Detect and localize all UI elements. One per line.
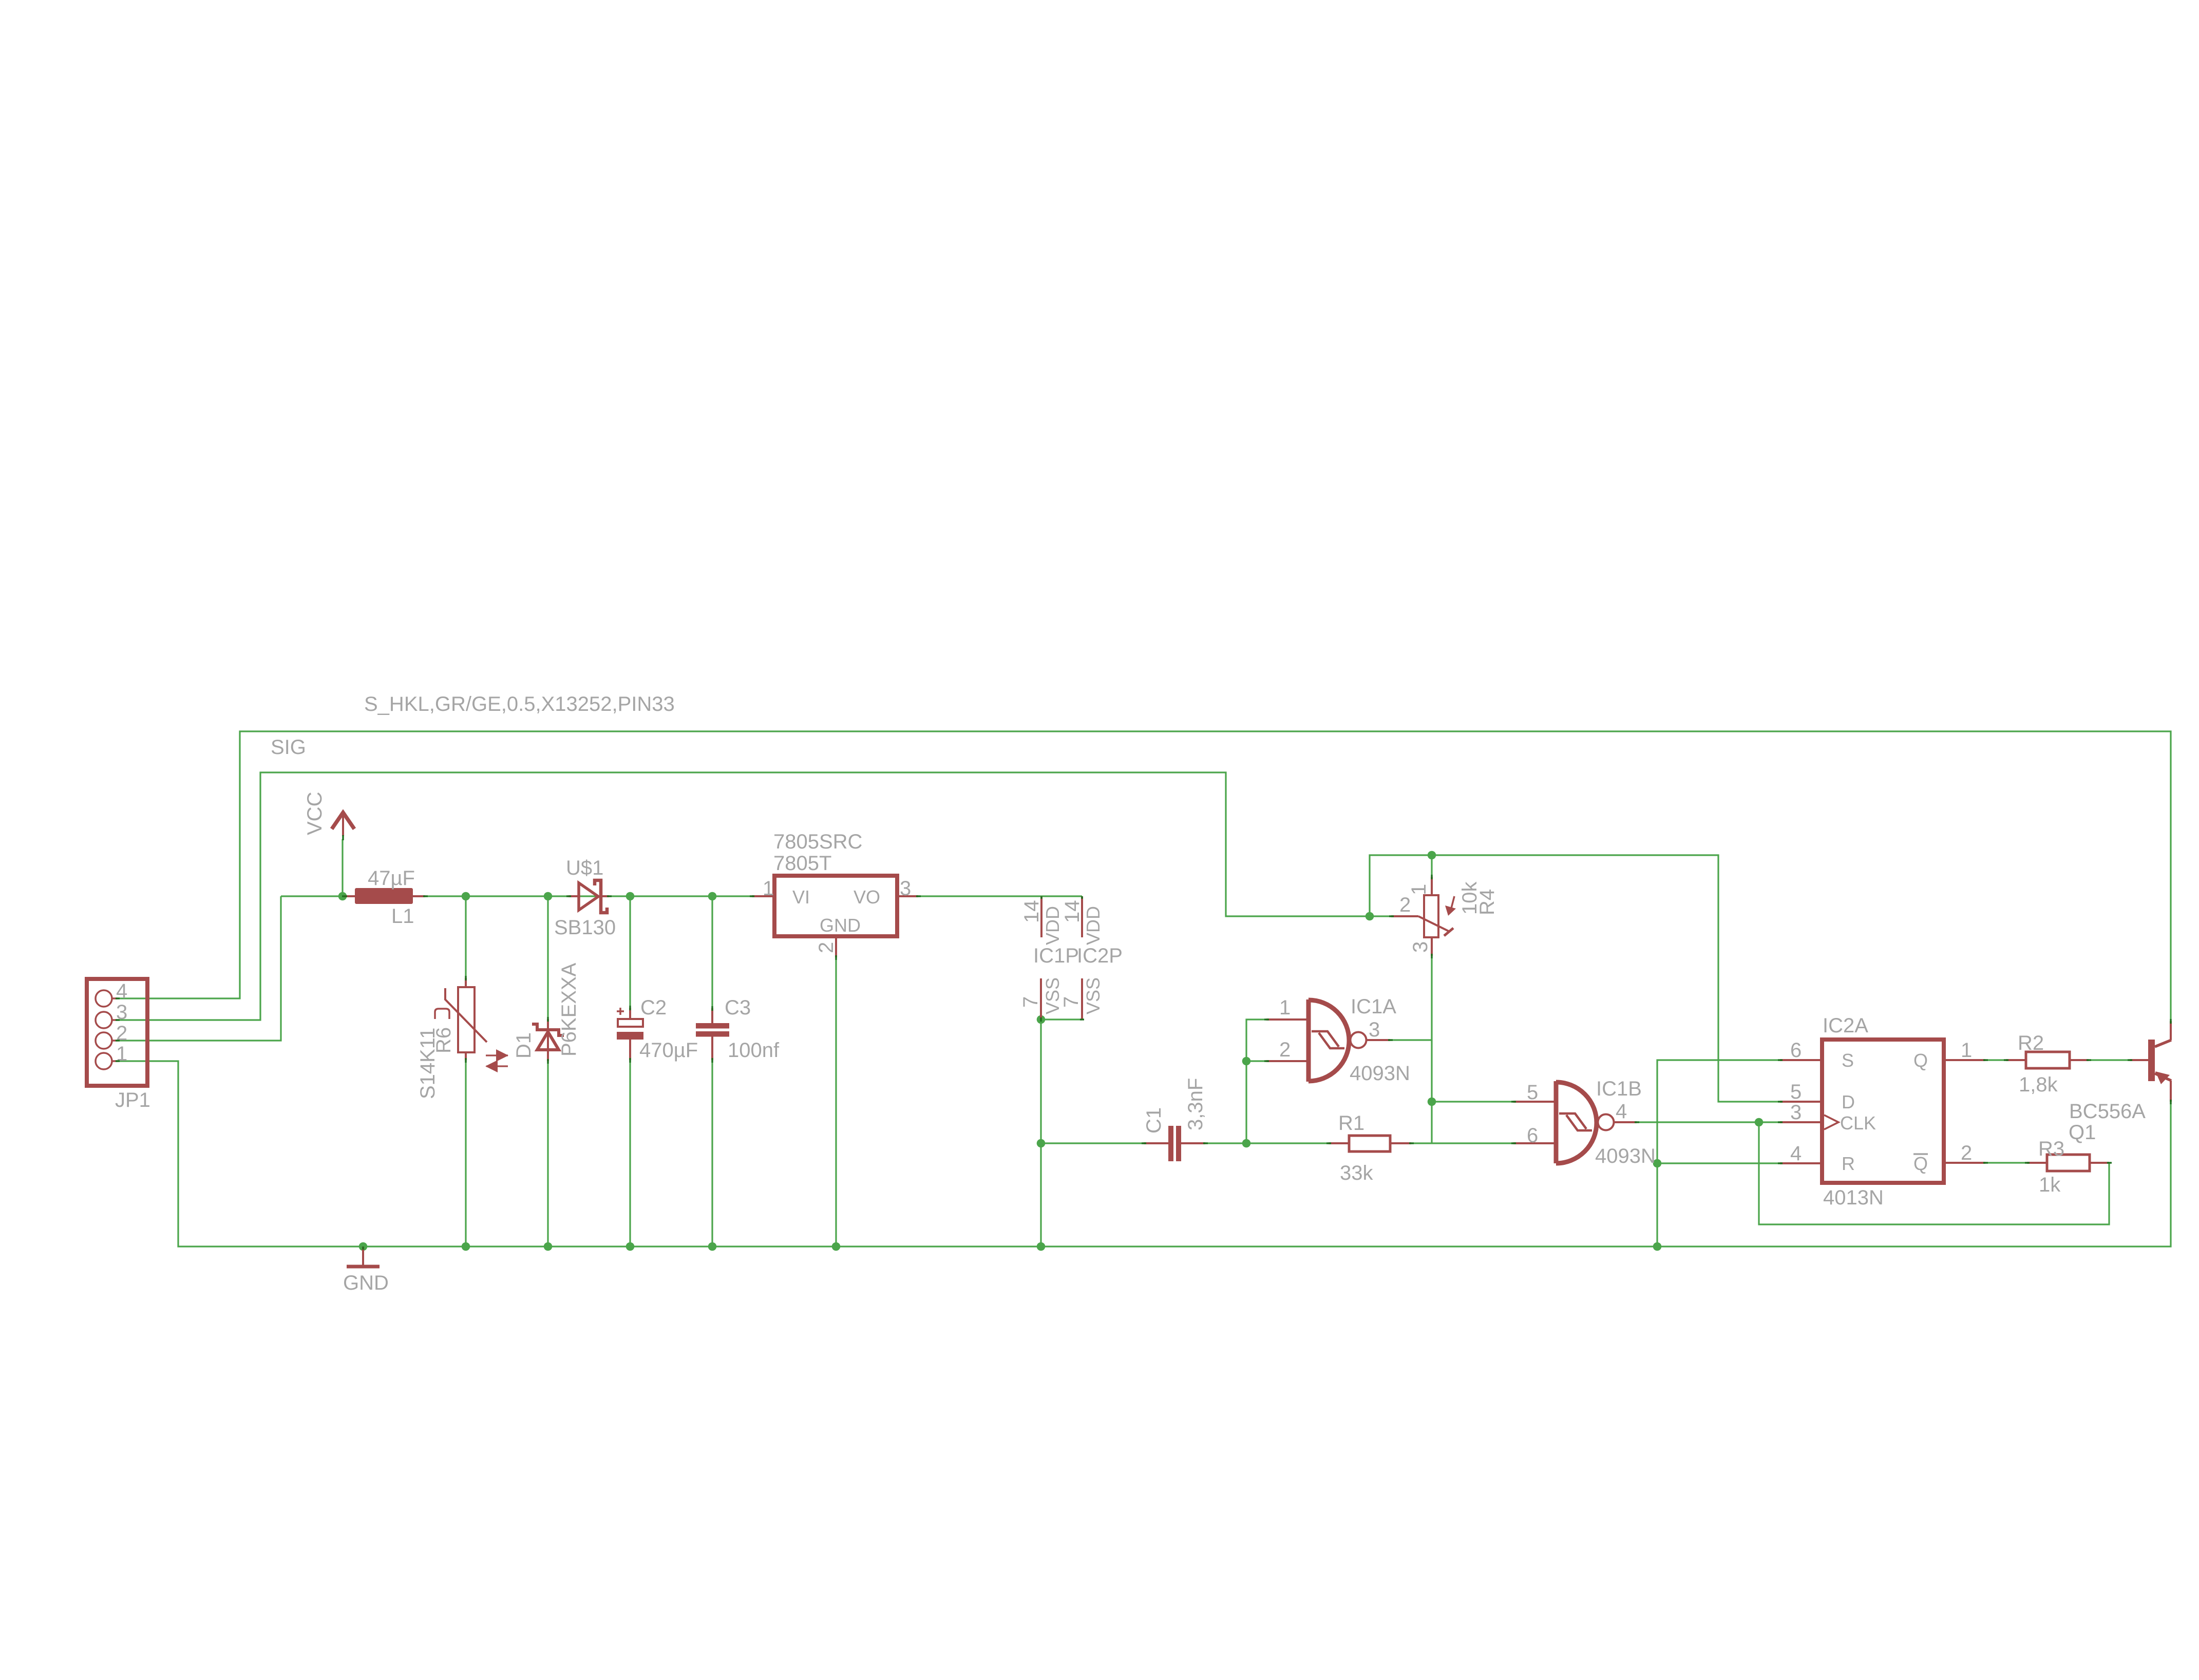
wire R4 out down to IC1B pin5 <box>1431 1040 1432 1143</box>
wire S and R to ground column <box>1657 1060 1780 1247</box>
voltage regulator 7805 <box>752 830 918 957</box>
junction VSS pins <box>1037 1015 1046 1024</box>
wire VSS link <box>1041 1018 1082 1020</box>
svg-text:Q1: Q1 <box>2069 1121 2096 1144</box>
svg-text:C1: C1 <box>1143 1107 1165 1134</box>
wire GND to C1 <box>1041 1142 1144 1144</box>
pin connection ticks <box>116 835 2171 1250</box>
junction 7805 GND bottom <box>832 1242 841 1251</box>
svg-text:R2: R2 <box>2018 1032 2044 1054</box>
svg-text:JP1: JP1 <box>115 1089 150 1111</box>
capacitor C3 <box>696 996 780 1062</box>
svg-text:VO: VO <box>854 886 880 908</box>
svg-text:IC2A: IC2A <box>1823 1014 1868 1037</box>
nand gate IC1B <box>1513 1078 1656 1167</box>
svg-text:D1: D1 <box>513 1032 535 1059</box>
junction D1 top <box>544 892 553 901</box>
junction D1 bottom <box>544 1242 553 1251</box>
junction IC1A pin2 <box>1242 1057 1251 1066</box>
inductor L1 <box>344 867 425 928</box>
svg-text:33k: 33k <box>1340 1162 1373 1184</box>
svg-text:R: R <box>1842 1153 1855 1174</box>
svg-text:7: 7 <box>1019 996 1042 1008</box>
junction R pin gnd <box>1653 1159 1662 1168</box>
svg-text:1,8k: 1,8k <box>2019 1073 2058 1096</box>
capacitor C2 polarized <box>617 996 698 1062</box>
svg-text:5: 5 <box>1790 1081 1802 1103</box>
wire CLK to R3 return loop <box>1759 1122 2109 1224</box>
connector JP1 <box>87 979 150 1111</box>
junction SIG R4 wiper <box>1366 912 1374 921</box>
wire D1 column <box>547 896 548 1019</box>
wire 7805 GND pin column <box>835 957 837 1247</box>
svg-text:2: 2 <box>1961 1142 1972 1164</box>
svg-text:2: 2 <box>1399 894 1411 916</box>
svg-text:1: 1 <box>1279 996 1291 1019</box>
junction C2 top <box>626 892 635 901</box>
svg-text:S_HKL,GR/GE,0.5,X13252,PIN33: S_HKL,GR/GE,0.5,X13252,PIN33 <box>364 693 675 715</box>
svg-text:R1: R1 <box>1338 1112 1364 1135</box>
svg-text:L1: L1 <box>391 905 414 928</box>
svg-text:3: 3 <box>900 877 911 900</box>
wire IC1B pin5 <box>1432 1101 1513 1102</box>
svg-text:IC1B: IC1B <box>1596 1078 1642 1100</box>
svg-text:IC1P: IC1P <box>1033 945 1079 967</box>
wire net S_HKL from JP1 pin4 to Q1 collector <box>118 731 2171 1021</box>
svg-text:SB130: SB130 <box>554 916 616 939</box>
wire IC1A pin2 stub <box>1246 1060 1266 1062</box>
svg-text:C3: C3 <box>725 996 751 1019</box>
junction CLK node <box>1755 1118 1764 1127</box>
svg-text:14: 14 <box>1020 900 1043 923</box>
ground symbol GND <box>343 1247 389 1294</box>
svg-text:6: 6 <box>1527 1124 1538 1147</box>
svg-text:R6: R6 <box>432 1027 455 1053</box>
svg-text:C2: C2 <box>640 996 667 1019</box>
junction R6 bottom <box>462 1242 470 1251</box>
wire IC1B output to CLK <box>1637 1121 1780 1123</box>
svg-text:7: 7 <box>1060 996 1083 1008</box>
wire R2 to Q1 base <box>2089 1059 2130 1061</box>
svg-text:Q: Q <box>1913 1153 1928 1174</box>
junction IC1B pin5 node <box>1428 1098 1436 1106</box>
svg-text:4013N: 4013N <box>1823 1186 1884 1209</box>
svg-text:2: 2 <box>815 942 838 953</box>
svg-text:4: 4 <box>1616 1100 1627 1123</box>
svg-text:4093N: 4093N <box>1595 1145 1656 1167</box>
wire SIG branch to R4 pin1 <box>1431 855 1432 877</box>
wire net VCC from JP1 pin2 to rail <box>118 896 281 1041</box>
svg-text:GND: GND <box>820 915 861 936</box>
svg-text:VDD: VDD <box>1042 906 1063 945</box>
svg-text:4: 4 <box>1790 1142 1802 1165</box>
svg-text:U$1: U$1 <box>566 857 603 879</box>
junction C3 top <box>708 892 717 901</box>
resistor R3 <box>2027 1138 2109 1196</box>
resistor R2 <box>2006 1032 2089 1096</box>
varistor R6 <box>416 978 487 1099</box>
wire VCC symbol stub <box>342 839 343 896</box>
wire IC1A output to R4 pin3 column <box>1390 956 1432 1040</box>
suppressor diode D1 <box>485 962 580 1072</box>
svg-text:6: 6 <box>1790 1039 1802 1062</box>
svg-text:D: D <box>1842 1091 1855 1112</box>
wire SIG branch to D of IC2A <box>1370 855 1780 1102</box>
svg-text:47µF: 47µF <box>368 867 415 890</box>
junction C1 R1 node <box>1242 1139 1251 1148</box>
svg-text:Q: Q <box>1913 1050 1928 1071</box>
flip flop IC2A <box>1780 1014 1985 1209</box>
svg-text:470µF: 470µF <box>639 1039 698 1062</box>
junction VSS bottom rail <box>1037 1242 1046 1251</box>
svg-text:7805SRC: 7805SRC <box>773 830 862 853</box>
junction C2 bottom <box>626 1242 635 1251</box>
junction R6 top <box>462 892 470 901</box>
junction GND symbol <box>359 1242 368 1251</box>
svg-text:IC1A: IC1A <box>1351 995 1396 1018</box>
svg-text:P6KEXXA: P6KEXXA <box>558 962 580 1056</box>
svg-text:4093N: 4093N <box>1350 1062 1410 1085</box>
svg-text:2: 2 <box>1279 1039 1291 1061</box>
svg-text:VSS: VSS <box>1083 977 1104 1014</box>
svg-text:3: 3 <box>1790 1101 1802 1124</box>
svg-text:S: S <box>1842 1050 1854 1071</box>
svg-text:1: 1 <box>1408 884 1430 895</box>
transistor Q1 BC556A <box>2069 1021 2171 1144</box>
svg-text:VI: VI <box>792 886 810 908</box>
svg-text:IC2P: IC2P <box>1077 945 1123 967</box>
trimmer R4 <box>1391 877 1499 956</box>
power symbol VCC <box>304 792 354 836</box>
svg-text:R3: R3 <box>2038 1138 2064 1160</box>
svg-text:VSS: VSS <box>1042 977 1063 1014</box>
wire R1 to IC1B pin6 <box>1411 1142 1513 1144</box>
wire C2 column <box>629 896 631 1008</box>
svg-text:VCC: VCC <box>304 792 326 835</box>
wire C1 to R1 node <box>1205 1142 1329 1144</box>
svg-text:100nf: 100nf <box>728 1039 780 1062</box>
wire C3 column <box>711 896 713 1008</box>
junction C1 gnd branch <box>1037 1139 1046 1148</box>
svg-text:7805T: 7805T <box>773 852 831 875</box>
resistor R1 <box>1329 1112 1411 1184</box>
svg-text:CLK: CLK <box>1840 1112 1876 1134</box>
wire Q to R2 <box>1985 1059 2006 1061</box>
svg-text:R4: R4 <box>1476 889 1499 915</box>
wire 7805 output to VDD pins <box>918 895 1082 897</box>
wire net SIG from JP1 pin3 to R4 pin2 <box>118 772 1391 1020</box>
wire VCC rail <box>281 895 752 897</box>
wire Qbar to R3 <box>1985 1162 2027 1163</box>
svg-text:SIG: SIG <box>271 736 306 759</box>
svg-text:5: 5 <box>1527 1081 1538 1104</box>
junction VCC rail <box>338 892 347 901</box>
svg-text:VDD: VDD <box>1083 906 1104 945</box>
schottky diode U$1 <box>554 857 616 939</box>
svg-text:BC556A: BC556A <box>2069 1100 2146 1123</box>
wire IC1A input column <box>1246 1020 1266 1143</box>
capacitor C1 <box>1143 1078 1207 1161</box>
wire R pin branch <box>1657 1162 1780 1164</box>
wire R6 column <box>465 896 466 978</box>
svg-text:3: 3 <box>1409 941 1432 953</box>
svg-text:3: 3 <box>1369 1018 1380 1041</box>
svg-text:3,3nF: 3,3nF <box>1184 1078 1207 1130</box>
junction R4 pin1 feedback <box>1428 851 1436 860</box>
svg-text:1: 1 <box>1961 1039 1972 1062</box>
wire VSS/GND column <box>1040 1020 1041 1247</box>
svg-text:1: 1 <box>763 877 774 900</box>
svg-text:GND: GND <box>343 1272 389 1294</box>
junction SR column bottom rail <box>1653 1242 1662 1251</box>
svg-text:1k: 1k <box>2039 1174 2061 1196</box>
junction C3 bottom <box>708 1242 717 1251</box>
power pins IC1P IC2P <box>1019 896 1123 1020</box>
svg-text:14: 14 <box>1061 900 1084 923</box>
nand gate IC1A <box>1266 995 1410 1085</box>
wire GND bottom rail from JP1 pin1 to Q1 emitter <box>118 1061 2171 1247</box>
